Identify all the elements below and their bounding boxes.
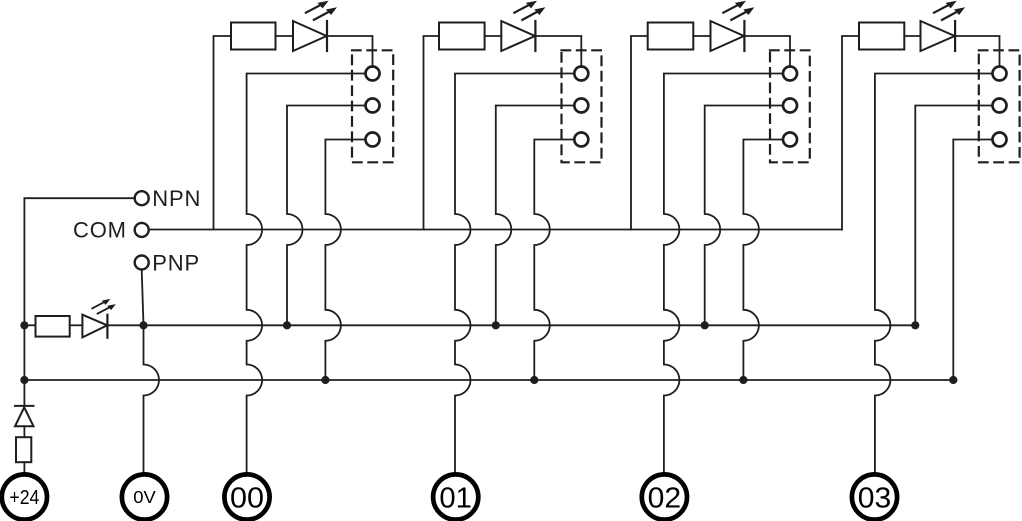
wire CN1 pin 2 to 0V bus [287,106,366,326]
terminal output 00 [224,474,269,519]
wire CN3 pin 1 to output terminal 02 [664,74,783,475]
connector CN2 outline (dashed) [562,50,602,162]
wire PNP terminal down to 0V bus [142,270,144,326]
wire CN3 pin 3 to +24V bus [743,140,783,381]
wire resistor R6 to +24 terminal [23,462,25,474]
wire CN4 pin 1 to output terminal 03 [875,74,993,475]
LED D3 (output indicator) [711,21,745,51]
connector CN3 pin 3 [783,133,797,147]
LED D5 (power indicator) [82,315,107,338]
resistor R5 (internal indicator) [36,316,70,337]
wire CN4 pin 3 to +24V bus [953,140,992,381]
connector CN1 pin 1 [366,67,380,81]
wire CN2 pin 2 to 0V bus [496,106,575,326]
svg-text:COM: COM [73,218,127,243]
wire block 4: COM riser to resistor R4 [842,36,859,230]
node CN2 pin 3 junction on +24V bus [530,376,538,384]
LED D1 (output indicator) [293,21,327,51]
wire LED D3 to pin 1 of connector CN3 [744,36,790,67]
node CN3 pin 3 junction on +24V bus [739,376,747,384]
terminal output 02 [642,474,687,519]
resistor R6 (fuse/limiter) [16,437,31,462]
wire resistor R3 to LED D3 [693,35,710,37]
terminal 0V [122,474,167,519]
connector CN4 pin 1 [993,67,1007,81]
connector CN2 pin 3 [574,133,588,147]
resistor R2 [439,23,485,50]
wire CN4 pin 2 to 0V bus [915,106,992,326]
terminal COM [135,223,149,237]
connector CN2 pin 1 [574,67,588,81]
wire +24V bus line [24,379,953,381]
wire CN1 pin 1 to output terminal 00 [247,74,366,475]
terminal NPN [135,191,149,205]
terminal +24V [2,474,47,519]
resistor R1 [231,23,276,50]
svg-text:0V: 0V [133,487,156,507]
node CN1 pin 2 junction on 0V bus [283,321,291,329]
wire +24 column upper [23,380,25,406]
wire CN1 pin 3 to +24V bus [325,140,365,381]
connector CN3 pin 2 [783,99,797,113]
connector CN4 pin 3 [993,133,1007,147]
wire 0V bus line (left stub) [24,324,35,326]
svg-text:01: 01 [439,482,472,514]
LED D5 light arrows [92,301,112,314]
svg-text:03: 03 [858,482,892,514]
node CN3 pin 2 junction on 0V bus [701,321,709,329]
resistor R3 [648,23,694,50]
svg-text:PNP: PNP [152,250,200,275]
wire CN2 pin 3 to +24V bus [534,140,574,381]
resistor R4 [859,23,904,50]
wire block 2: COM riser to resistor R2 [424,36,440,230]
node junction PNP / 0V bus [139,321,147,329]
svg-text:00: 00 [230,482,264,514]
terminal output 03 [852,474,897,519]
connector CN4 pin 2 [993,99,1007,113]
node junction 0V bus / left rail [20,321,28,329]
wire resistor R2 to LED D2 [485,35,502,37]
svg-text:NPN: NPN [152,186,201,211]
node CN1 pin 3 junction on +24V bus [321,376,329,384]
node junction +24 rail / left rail [20,376,28,384]
wire resistor R1 to LED D1 [276,35,294,37]
terminal output 01 [433,474,478,519]
wire 0V bus line [107,324,915,326]
connector CN3 outline (dashed) [770,50,810,162]
connector CN1 pin 3 [366,133,380,147]
LED D4 (output indicator) [921,21,955,51]
LED D2 light arrows [514,3,540,20]
wire diode to resistor R6 [23,426,25,437]
node CN2 pin 2 junction on 0V bus [492,321,500,329]
wire COM bus line [149,229,842,231]
wire resistor R5 to LED D5 [70,324,83,326]
LED D1 light arrows [306,3,332,20]
wire resistor R4 to LED D4 [904,35,920,37]
LED D2 (output indicator) [501,21,535,51]
wire block 3: COM riser to resistor R3 [631,36,648,230]
connector CN3 pin 1 [783,67,797,81]
terminal PNP [135,256,149,270]
LED D4 light arrows [934,3,960,20]
svg-text:02: 02 [648,482,682,514]
node CN4 pin 3 junction on +24V bus [949,376,957,384]
connector CN4 outline (dashed) [979,50,1020,162]
svg-text:+24: +24 [9,487,39,509]
connector CN1 outline (dashed) [352,50,393,162]
wire LED D4 to pin 1 of connector CN4 [955,36,1000,67]
wire CN2 pin 1 to output terminal 01 [455,74,574,475]
wire CN3 pin 2 to 0V bus [705,106,783,326]
connector CN2 pin 2 [574,99,588,113]
LED D3 light arrows [723,3,749,20]
connector CN1 pin 2 [366,99,380,113]
wire 0V column: bus to 0V terminal (hops +24 bus) [144,325,160,474]
wire LED D2 to pin 1 of connector CN2 [535,36,581,67]
wire NPN terminal to left rail [24,198,134,380]
node CN4 pin 2 junction on 0V bus [911,321,919,329]
diode D6 (reverse protection, cathode up) [15,405,34,407]
wire LED D1 to pin 1 of connector CN1 [327,36,373,67]
wire block 1: COM riser to resistor R1 [214,36,232,230]
